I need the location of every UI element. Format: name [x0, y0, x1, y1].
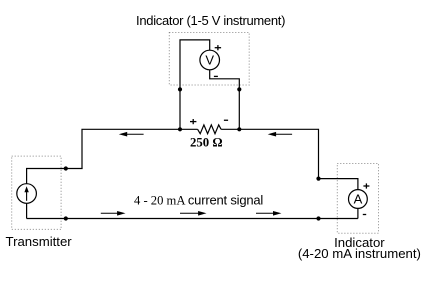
current arrow (upper right, pointing left): [268, 132, 292, 137]
wire: upper loop right segment: [221, 129, 318, 178]
svg-text:Indicator (1-5 V instrument): Indicator (1-5 V instrument): [136, 13, 285, 28]
current arrow (upper left, pointing left): [119, 132, 144, 137]
resistor R (250 ohm): [198, 125, 222, 134]
polarity - (resistor): [224, 119, 228, 121]
junction dot: ammeter bottom: [316, 216, 320, 220]
junction dot: voltmeter lead left: [178, 87, 182, 91]
current arrow (bottom 3, pointing right): [256, 211, 281, 216]
wire: bottom return wire: [27, 218, 358, 220]
current arrow (bottom 1, pointing right): [101, 211, 126, 216]
wire: upper loop left segment: [82, 129, 198, 168]
junction dot: transmitter top: [64, 166, 68, 170]
voltmeter V1: [200, 50, 220, 70]
current arrow (bottom 2, pointing right): [180, 211, 207, 216]
voltmeter dashed enclosure: [169, 33, 249, 86]
polarity + (resistor): [190, 119, 196, 124]
wire: ammeter positive lead: [319, 179, 358, 190]
svg-text:(4-20 mA instrument): (4-20 mA instrument): [298, 246, 421, 261]
ammeter dashed enclosure: [337, 164, 378, 234]
svg-text:250 Ω: 250 Ω: [190, 136, 223, 150]
wire: ammeter negative lead: [357, 208, 359, 218]
transmitter current source symbol: [17, 184, 37, 204]
svg-text:A: A: [354, 192, 363, 207]
junction dot: transmitter bottom: [64, 216, 68, 220]
svg-text:Transmitter: Transmitter: [6, 234, 73, 249]
wire: transmitter positive lead: [27, 169, 83, 185]
polarity - (ammeter): [363, 214, 366, 216]
junction dot: resistor right node: [237, 127, 241, 131]
polarity + (voltmeter): [215, 45, 221, 50]
ammeter A1: [349, 190, 368, 209]
polarity - (voltmeter): [214, 75, 218, 77]
wire: voltmeter negative lead: [210, 70, 240, 130]
junction dot: ammeter top: [316, 177, 320, 181]
transmitter dashed enclosure: [12, 156, 61, 229]
junction dot: voltmeter lead right: [237, 87, 241, 91]
wire: transmitter negative lead: [26, 203, 28, 218]
polarity + (ammeter): [363, 183, 369, 188]
junction dot: resistor left node: [178, 127, 182, 131]
wire: voltmeter positive lead: [180, 40, 210, 129]
svg-text:V: V: [205, 53, 214, 68]
svg-text:4 - 20 mA current signal: 4 - 20 mA current signal: [134, 192, 263, 207]
